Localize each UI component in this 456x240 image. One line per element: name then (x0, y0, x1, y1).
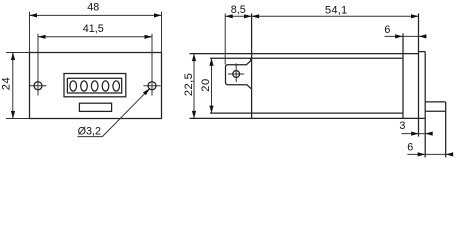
digit zero 4 (102, 81, 109, 91)
dim 24 extension line top (6, 52, 30, 54)
reset pin top edge (425, 101, 446, 103)
dimension 54,1 arrow right (411, 14, 419, 18)
svg-text:6: 6 (384, 24, 390, 36)
dimension 54,1 line (252, 15, 419, 17)
svg-text:54,1: 54,1 (325, 5, 348, 17)
dimension 6 top arrow right (419, 34, 427, 38)
dimension 54,1 arrow left (252, 14, 260, 18)
mounting ear outline (226, 58, 252, 88)
dim 48 extension line left (29, 12, 31, 53)
ear hole (233, 71, 240, 78)
side view body right edge with extension (402, 33, 404, 118)
dimension 6 bottom arrow left (418, 152, 426, 156)
digit zero 1 (70, 81, 77, 91)
dimension 41,5 arrow left (38, 35, 46, 39)
dimension 8,5 arrow left (225, 14, 233, 18)
dimension 22,5 line (193, 54, 195, 119)
svg-text:Ø3,2: Ø3,2 (78, 126, 101, 138)
svg-text:41,5: 41,5 (83, 23, 104, 35)
svg-text:24: 24 (1, 77, 13, 90)
dimension 48 arrow right (154, 13, 162, 17)
dimension 41,5 arrow right (145, 35, 153, 39)
dim 48 extension line right (161, 12, 163, 53)
dimension 3 arrow right (425, 132, 433, 136)
left mounting hole (34, 82, 42, 90)
right hole centerline horizontal (144, 85, 161, 87)
dimension 24 arrow down (11, 111, 15, 119)
dim 24 extension line bottom (6, 118, 30, 120)
dimension 20 line (211, 58, 213, 113)
dimension 20 arrow down (209, 106, 213, 114)
counter window outer frame (64, 74, 126, 97)
leader line to hole (103, 88, 151, 136)
dimension 20 arrow up (209, 58, 213, 65)
dimension 48 line (30, 14, 162, 16)
digit zero 2 (81, 81, 88, 91)
dimension 3 arrow left (411, 132, 419, 136)
bezel back edge with extensions (418, 13, 420, 136)
left hole centerline vertical (37, 34, 39, 96)
digit zero 5 (113, 81, 120, 91)
dimension 22,5 arrow up (192, 54, 196, 62)
dimension 6 bottom line (408, 153, 453, 155)
dimension 22,5 arrow down (192, 111, 196, 119)
dimension 6 bottom arrow right (446, 152, 454, 156)
dim 8,5 extension line left (224, 13, 226, 64)
svg-text:22,5: 22,5 (183, 73, 195, 96)
bezel front edge with extension (424, 52, 426, 158)
label plate rectangle (79, 103, 111, 111)
leader arrowhead (143, 88, 150, 95)
dimension 6 top arrow left (395, 34, 403, 38)
ear hole centerline vertical (235, 63, 237, 82)
svg-text:8,5: 8,5 (231, 4, 246, 16)
dimension 24 arrow up (11, 53, 15, 61)
svg-text:20: 20 (200, 78, 212, 91)
left hole centerline horizontal (30, 85, 47, 87)
reset pin bottom edge (425, 110, 446, 112)
dimension 48 arrow left (30, 13, 38, 17)
side view body outer top edge (190, 53, 419, 55)
reset pin right edge with extension (445, 102, 447, 157)
counter window inner frame (67, 78, 121, 93)
side view body left edge with extension (251, 13, 253, 118)
side view body inner bottom edge (210, 112, 403, 114)
dimension 3 line (402, 133, 432, 135)
dimension 6 top line (385, 35, 427, 37)
svg-text:6: 6 (407, 142, 413, 154)
dimension 41,5 line (38, 36, 152, 38)
svg-text:48: 48 (87, 2, 99, 14)
right mounting hole (148, 82, 156, 90)
front panel outline (30, 53, 162, 119)
side view body outer bottom edge (190, 117, 426, 119)
side view body inner top edge (210, 57, 403, 59)
dimension 8,5 arrow right (244, 14, 252, 18)
digit zero 3 (91, 81, 98, 91)
dimension 24 line (12, 53, 14, 119)
hole diameter label underline (78, 136, 103, 138)
right hole centerline vertical (151, 34, 153, 96)
ear hole centerline horizontal (228, 73, 244, 75)
dimension 8,5 line (225, 15, 251, 17)
bezel top edge (419, 51, 426, 53)
svg-text:3: 3 (399, 120, 405, 132)
